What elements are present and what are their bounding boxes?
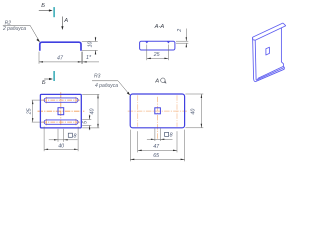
- SECTION A-A notch right: [167, 42, 170, 44]
- FRONT VIEW dim square8 text: [68, 133, 72, 137]
- svg-text:25: 25: [26, 108, 32, 115]
- VIEW A rotated symbol: [161, 78, 166, 83]
- VIEW1 dim 47: extension lines: [39, 52, 99, 64]
- SECTION A-A notch left: [145, 42, 148, 44]
- iso bottom flange bottom edge: [255, 69, 284, 82]
- iso right notch: [281, 62, 283, 66]
- VIEW1 dim 47: arrows: [39, 61, 87, 62]
- SECTION A-A dim 25: arrows: [147, 58, 169, 59]
- FRONT VIEW top slot: [44, 98, 78, 102]
- FRONT VIEW top slot end ticks: [45, 97, 47, 103]
- VIEW A dim 40: arrows: [201, 94, 202, 128]
- FRONT VIEW square hole: [58, 108, 64, 115]
- iso bend line left: [254, 40, 257, 80]
- iso flange end face right: [282, 66, 285, 69]
- VIEW1 dim 10: extension lines: [82, 37, 98, 55]
- FRONT VIEW centerline vertical: [60, 92, 62, 126]
- iso square hole: [266, 47, 270, 55]
- iso top flange right end face: [283, 23, 286, 26]
- VIEW A outline: [130, 94, 184, 128]
- svg-text:5: 5: [83, 121, 89, 124]
- FRONT VIEW dim 5: ext lines: [82, 115, 91, 131]
- svg-text:8: 8: [74, 133, 77, 139]
- FRONT VIEW centerline horizontal: [38, 110, 85, 112]
- FRONT VIEW dim 25: arrows: [32, 100, 33, 122]
- SECTION A-A dim 2: extension lines: [176, 29, 188, 48]
- FRONT VIEW dim 5: arrows: [89, 116, 90, 130]
- svg-text:А-А: А-А: [154, 24, 165, 30]
- FRONT VIEW dim 40 right: arrows: [97, 94, 98, 128]
- VIEW A dim 40: ext+dim lines: [185, 94, 203, 128]
- ISO VIEW bracket: [253, 23, 286, 82]
- svg-text:А: А: [63, 18, 68, 24]
- VIEW A dim 65: ext+dim lines: [130, 130, 184, 162]
- svg-text:Б: Б: [41, 3, 45, 9]
- svg-text:Б: Б: [42, 80, 46, 86]
- svg-text:R3: R3: [94, 74, 101, 80]
- FRONT VIEW dim 25: ext+dim lines: [32, 100, 43, 122]
- VIEW A dim 47: arrows: [138, 150, 177, 151]
- VIEW A dim square8: arrows: [151, 139, 164, 140]
- FRONT VIEW bottom slot: [44, 120, 78, 124]
- iso top flange left end face: [253, 37, 256, 40]
- iso web left edge: [253, 37, 256, 81]
- note R2 2 радиуса: leader: [3, 25, 39, 41]
- section mark B top: cyan tick: [53, 7, 55, 17]
- SECTION A-A plate outline: [140, 41, 175, 50]
- FRONT VIEW bottom slot centerline: [42, 121, 80, 123]
- svg-text:А: А: [154, 79, 159, 85]
- VIEW A dim 65: arrows: [130, 159, 184, 160]
- VIEW A centerline vertical: [157, 97, 159, 139]
- iso top flange lower edge: [255, 26, 286, 40]
- VIEW A dim square8 text: [165, 132, 169, 136]
- iso bottom flange top edge: [258, 66, 284, 78]
- FRONT VIEW dim 40 right: ext+dim lines: [82, 94, 99, 128]
- VIEW A dim 47: ext+dim lines: [138, 131, 177, 152]
- FRONT VIEW outline: [40, 94, 81, 128]
- svg-text:4 радиуса: 4 радиуса: [95, 83, 118, 89]
- VIEW1 side profile part outline: [40, 42, 81, 51]
- VIEW A bend line left: [137, 95, 139, 127]
- FRONT VIEW top slot centerline: [42, 99, 80, 101]
- svg-text:8: 8: [170, 133, 173, 139]
- svg-text:65: 65: [153, 153, 159, 159]
- VIEW A centerline horizontal: [128, 110, 187, 112]
- VIEW A bend line right: [176, 95, 178, 127]
- svg-text:47: 47: [57, 56, 64, 62]
- iso web right edge: [280, 28, 282, 62]
- FRONT VIEW dim square8: arrows: [54, 139, 68, 140]
- section mark B bottom: arrow: [44, 78, 53, 80]
- VIEW A square hole: [155, 108, 161, 114]
- FRONT VIEW dim square8: ext lines: [49, 129, 78, 142]
- iso top flange upper edge: [253, 23, 283, 37]
- FRONT VIEW bottom slot end ticks: [45, 119, 47, 125]
- section mark B top: arrow: [39, 9, 53, 11]
- svg-text:47: 47: [153, 144, 160, 150]
- svg-text:40: 40: [191, 109, 197, 115]
- svg-text:2: 2: [177, 29, 183, 33]
- svg-text:25: 25: [153, 52, 160, 58]
- FRONT VIEW dim 40 bottom: arrows: [44, 149, 78, 150]
- svg-text:10: 10: [88, 41, 94, 47]
- svg-text:2 радиуса: 2 радиуса: [2, 26, 26, 32]
- VIEW1 dim 10: arrows: [95, 37, 96, 54]
- section mark B bottom: cyan tick: [53, 71, 55, 81]
- iso bottom flange mid edge: [256, 68, 284, 81]
- view arrow A: arrow down: [61, 17, 63, 31]
- svg-text:40: 40: [58, 144, 64, 150]
- note R3 4 радиуса: leader: [92, 81, 129, 94]
- FRONT VIEW dim 40 bottom: ext+dim lines: [44, 127, 78, 152]
- svg-text:40: 40: [89, 109, 95, 115]
- VIEW A dim square8: ext lines: [147, 129, 173, 142]
- SECTION A-A dim 2: arrows: [186, 37, 187, 47]
- SECTION A-A dim 25: extension+dim lines: [147, 45, 169, 61]
